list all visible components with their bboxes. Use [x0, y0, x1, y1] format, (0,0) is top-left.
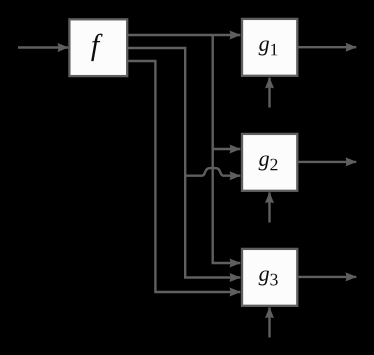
wire g3 output arrow: [299, 276, 357, 278]
wire f output 3 down to g3 bottom input: [128, 61, 240, 292]
wire g2 bottom input arrow: [268, 192, 270, 222]
wire g2 output arrow: [299, 161, 357, 163]
block g1: [242, 19, 297, 76]
block g3: [242, 249, 297, 306]
wire g1 bottom input arrow: [268, 78, 270, 108]
wire branch with hop to g2 lower input: [185, 168, 240, 176]
wire vertical drop from output 1 down to g3 top input: [213, 35, 241, 263]
block f: [69, 19, 127, 76]
wire f output 2 down to g3 middle input: [128, 48, 240, 278]
wire branch to g2 upper input: [213, 148, 241, 150]
wire g1 output arrow: [299, 46, 357, 48]
wire f output 1 to g1: [128, 34, 240, 36]
wire g3 bottom input arrow: [268, 307, 270, 337]
wire input arrow into f: [18, 46, 68, 48]
block g2: [242, 134, 297, 191]
